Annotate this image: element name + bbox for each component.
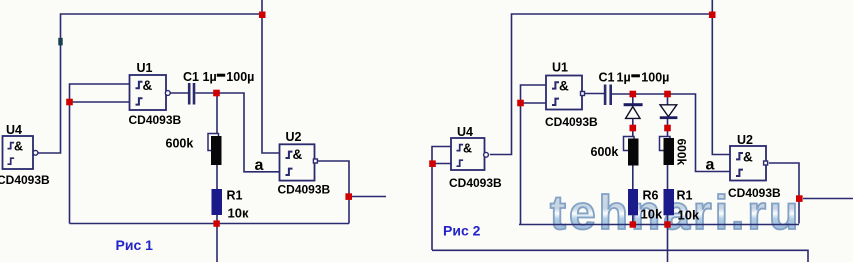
svg-text:600k: 600k [166,137,194,151]
wire: U4 output net, left vertical and top rail to node [39,14,263,153]
wire: vertical from top edge down to U2 upper input [712,0,730,155]
svg-text:CD4093B: CD4093B [0,173,50,187]
svg-text:10k: 10k [641,207,663,222]
wire: U1 input tie net down to bottom rail [521,85,547,225]
wire: C1 along diode rail, down to U2 lower input [612,94,730,172]
svg-text:1µ: 1µ [617,71,631,85]
gate U4 (CD4093B NAND Schmitt, right) [451,138,488,170]
resistor 600k (outline + black body) [208,134,219,151]
svg-text:&: & [143,78,153,93]
resistor 600k right column (outline + black body) [660,137,671,151]
svg-text:10к: 10к [228,206,249,221]
node: junction top rail / vertical feed (red dot) [259,12,266,19]
node: U1 inputs junction (red dot) [517,100,524,107]
diode D2 (cathode down) [660,96,678,126]
wire: junction down to 600k [216,96,218,134]
gate U4 (CD4093B NAND Schmitt, clipped at left) [3,136,38,169]
wire: C1 to junction then to U2 lower input [195,93,279,172]
svg-text:Рис 2: Рис 2 [443,223,481,239]
capacitor C1 plates (right) [604,85,607,106]
wire: U2 output down to rail with output stub [318,161,386,224]
gate U2 (CD4093B NAND Schmitt) [280,144,318,180]
svg-text:R1: R1 [227,189,243,203]
svg-text:a: a [706,157,715,174]
diode D1 (cathode up) [624,96,643,126]
svg-text:C1: C1 [183,70,199,84]
svg-text:&: & [463,142,472,156]
svg-text:1µ: 1µ [203,70,217,84]
svg-text:10k: 10k [678,208,700,223]
node: rail junction R1 (red dot) [664,221,670,227]
wire: U1 input tie net down to bottom rail [70,84,130,224]
capacitor C1 plates [188,83,191,105]
svg-text:100µ: 100µ [641,71,669,85]
gate U2 (CD4093B NAND Schmitt, right) [730,146,768,181]
resistor R1 body [212,189,223,215]
node: rail junction (red dot) [213,220,219,226]
gate U1 (CD4093B NAND Schmitt, right) [546,76,585,110]
svg-text:U2: U2 [737,133,753,147]
svg-text:&: & [743,150,753,165]
wire: R6 to rail [632,215,634,224]
wire: bottom rail [70,223,350,225]
wire: to 600k top [632,131,634,137]
svg-text:&: & [14,140,23,154]
wire: U1 output to C1 (right) [585,93,604,95]
svg-text:CD4093B: CD4093B [449,176,502,190]
node: diode 1 top (red dot) [630,91,637,98]
svg-text:C1: C1 [599,71,615,85]
svg-text:U2: U2 [286,130,302,144]
resistor 600k left column (outline + black body) [624,137,635,151]
svg-text:U1: U1 [552,61,568,75]
svg-text:&: & [293,147,303,162]
node: diode 2 bottom (red dot) [664,125,671,132]
node: rail junction R6 (red dot) [630,221,636,227]
svg-text:Рис 1: Рис 1 [116,237,154,253]
wire: 600k to R1 (right column) [667,165,669,189]
wire: R1 through rail to bottom edge [667,215,669,262]
wire: U1 output to C1 [170,92,188,94]
svg-text:U4: U4 [457,125,473,139]
resistor R6 body [628,189,638,215]
resistor R1 body (right) [664,189,675,215]
wire: to 600k top (right column) [667,131,669,137]
svg-text:600k: 600k [591,145,619,159]
svg-text:U1: U1 [137,61,153,75]
svg-text:&: & [559,79,569,94]
node: C1/R junction (red dot) [213,90,220,97]
wire: U4 output net, left vertical and top rail [490,14,712,155]
wire: bottom rail (right circuit) [519,224,799,226]
node: output junction (red dot) [345,193,352,200]
svg-text:U4: U4 [6,123,22,137]
svg-text:CD4093B: CD4093B [129,113,182,127]
node: U1 inputs junction (red dot) [66,99,73,106]
wire: U4 inputs tie down to low rail [432,147,451,251]
node: top rail junction (red dot) [709,12,716,19]
svg-text:R1: R1 [677,189,693,203]
svg-text:CD4093B: CD4093B [545,115,598,129]
svg-text:a: a [255,157,264,174]
wire: vertical from top edge down to U2 upper input [262,0,280,153]
gate U1 (CD4093B NAND Schmitt) [130,75,171,110]
wire: 600k to R6 [632,166,634,190]
node: U4 inputs junction (red dot) [429,160,436,167]
svg-text:CD4093B: CD4093B [728,186,781,200]
marker on left wire (teal) [58,38,62,46]
wire: 600k to R1 [216,165,218,189]
svg-text:CD4093B: CD4093B [278,183,331,197]
node: output junction (red dot, right) [796,195,803,202]
svg-text:R6: R6 [643,189,659,203]
watermark tehnari.ru [550,187,801,240]
wire: R1 down through rail to bottom edge [216,215,218,262]
wire: U2 output down to rail with output stub (right) [769,163,853,224]
node: diode 1 bottom (red dot) [630,125,637,132]
wire: low rail to bottom edge [432,250,808,262]
svg-text:600k: 600k [675,139,689,166]
node: diode 2 top (red dot) [664,91,671,98]
svg-text:100µ: 100µ [226,70,254,84]
